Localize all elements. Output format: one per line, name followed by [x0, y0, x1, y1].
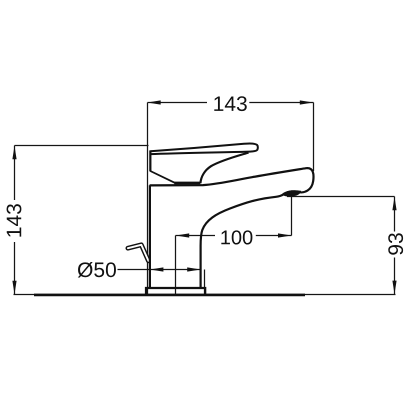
- dimension diameter 50: right extension line down to flange: [204, 270, 206, 295]
- spout outlet aerator (dark crescent): [282, 191, 300, 196]
- dimension diameter 50: left arrow: [150, 267, 164, 271]
- dimension 143 top: left arrow: [147, 100, 161, 104]
- handle lever blade (top edge, rounded tip, bottom edge): [150, 144, 257, 155]
- ground line thin extension: [14, 294, 396, 296]
- dimension 143 left: line bottom segment: [14, 242, 16, 295]
- handle chin diagonal: [150, 171, 175, 183]
- base flange: [146, 288, 205, 295]
- handle joint dark band: [174, 182, 200, 185]
- faucet body left edge: [149, 185, 151, 288]
- dimension 143 left: label (rotated): [7, 204, 22, 237]
- dimension 93: line top segment: [394, 197, 396, 232]
- dimension 100: line left segment: [176, 235, 216, 237]
- handle neck swoosh curve: [200, 153, 248, 184]
- ground line thick: [34, 294, 305, 297]
- dimension 93: down arrow: [392, 281, 396, 295]
- handle left edge: [149, 150, 151, 171]
- dimension 143 top: right extension line down to spout: [313, 103, 315, 172]
- dimension 143 left: line top segment: [14, 146, 16, 201]
- dimension 100: label: [221, 230, 252, 244]
- dimension 100: line right segment: [256, 235, 292, 237]
- dimension 143 left: down arrow: [12, 281, 16, 295]
- dimension diameter 50: label: [78, 262, 116, 278]
- dimension 93: up arrow: [392, 197, 396, 211]
- pop-up rod lever (white core): [128, 245, 148, 261]
- dimension 143 top: label: [214, 96, 247, 111]
- dimension diameter 50: right arrow: [187, 267, 201, 271]
- dimension 143 top: right arrow: [300, 100, 314, 104]
- pop-up rod lever (black outline): [128, 245, 148, 261]
- dimension 93: line bottom segment: [394, 258, 396, 295]
- faucet body top and spout top edge, bulb end, underside down to base: [150, 168, 314, 288]
- dimension 143 left: top extension line to faucet: [15, 145, 149, 147]
- dimension 143 left: up arrow: [12, 146, 16, 160]
- dimension 93: top extension line from outlet: [287, 196, 395, 198]
- dimension 100: right extension line up to outlet: [291, 196, 293, 236]
- dimension 143 top: left extension line down to ground: [147, 103, 149, 295]
- dimension 100: left extension line down to ground: [175, 236, 177, 295]
- dimension 143 top: line left segment: [148, 102, 208, 104]
- dimension 100: left arrow: [176, 233, 190, 237]
- dimension 143 top: line right segment: [249, 102, 313, 104]
- dimension 93: label (rotated): [388, 233, 403, 254]
- dimension diameter 50: leader and dimension line: [118, 269, 202, 271]
- dimension 100: right arrow: [278, 233, 292, 237]
